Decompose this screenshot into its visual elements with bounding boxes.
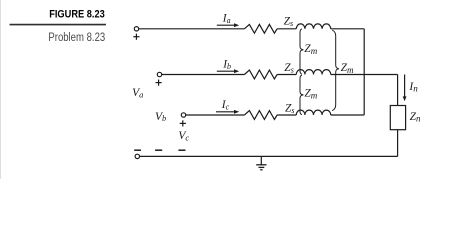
- svg-text:Vc: Vc: [178, 130, 189, 142]
- label Zs phase a: [284, 15, 294, 27]
- impedance Zn box: [390, 106, 405, 130]
- wire neutral branch down: [397, 75, 399, 106]
- ground symbol: [256, 156, 266, 169]
- label Zs phase b: [284, 62, 294, 74]
- current arrow Ic: [216, 110, 239, 114]
- wire phase c right: [331, 114, 365, 116]
- mutual coupling brace Zm (a-c): [332, 30, 339, 110]
- wire phase b mid: [277, 74, 296, 76]
- wire phase a right: [331, 28, 365, 30]
- svg-text:In: In: [408, 81, 418, 94]
- bottom return bus wire: [140, 155, 398, 157]
- resistor Zs phase b: [244, 70, 277, 79]
- inductor Zs phase c: [296, 110, 330, 115]
- svg-text:Zm: Zm: [341, 62, 354, 75]
- svg-text:Zm: Zm: [304, 43, 317, 56]
- wire phase b left: [162, 74, 245, 76]
- label Zn: [410, 111, 421, 123]
- label Zm (a-c): [341, 62, 354, 75]
- neutral bus vertical wire: [363, 29, 365, 115]
- svg-text:Zm: Zm: [304, 88, 317, 101]
- wire phase a left: [139, 28, 245, 30]
- label Vb: [155, 111, 166, 123]
- terminal Vb (phase b source + terminal): [157, 72, 161, 76]
- caption Problem 8.23: [48, 30, 105, 44]
- minus sign Vb: [155, 149, 162, 151]
- minus sign Va: [134, 149, 141, 151]
- wire phase c left: [186, 114, 245, 116]
- svg-text:Zn: Zn: [410, 111, 421, 123]
- current arrow Ia: [217, 23, 239, 27]
- inductor Zs phase b: [296, 70, 330, 75]
- svg-text:FIGURE 8.23: FIGURE 8.23: [49, 9, 105, 21]
- plus sign Vb: [156, 80, 162, 86]
- svg-text:Zs: Zs: [284, 62, 294, 74]
- mutual coupling brace Zm (b-c): [300, 75, 303, 115]
- resistor Zs phase c: [244, 111, 277, 120]
- label Zm (a-b): [304, 43, 317, 56]
- label Ia: [222, 12, 231, 25]
- plus sign Vc: [180, 120, 186, 126]
- terminal Vc (phase c source + terminal): [181, 113, 185, 117]
- wire phase a mid: [277, 28, 296, 30]
- plus sign Va: [133, 34, 139, 40]
- svg-text:Vb: Vb: [155, 111, 166, 123]
- label Ib: [222, 58, 231, 71]
- caption rule: [10, 24, 107, 26]
- current arrow In: [403, 75, 407, 102]
- wire phase c mid: [277, 114, 296, 116]
- terminal Va (phase a source + terminal): [134, 27, 138, 31]
- label Vc: [178, 130, 189, 142]
- label Zm (b-c): [304, 88, 317, 101]
- svg-text:Ib: Ib: [222, 58, 231, 71]
- svg-text:Va: Va: [132, 87, 143, 99]
- svg-text:Problem 8.23: Problem 8.23: [48, 30, 105, 44]
- terminal neutral (bottom left): [135, 154, 139, 158]
- label In: [408, 81, 418, 94]
- page left edge: [0, 0, 2, 179]
- wire below Zn: [397, 130, 399, 157]
- current arrow Ib: [217, 69, 239, 73]
- label Va: [132, 87, 143, 99]
- label Ic: [221, 99, 230, 112]
- label Zs phase c: [285, 103, 295, 115]
- wire phase b right to neutral corner: [331, 74, 398, 76]
- inductor Zs phase a: [296, 24, 330, 29]
- svg-text:Zs: Zs: [285, 103, 295, 115]
- resistor Zs phase a: [244, 24, 277, 33]
- svg-text:Ic: Ic: [221, 99, 230, 112]
- figure caption FIGURE 8.23: [49, 9, 105, 21]
- minus sign Vc: [178, 149, 185, 151]
- svg-text:Zs: Zs: [284, 15, 294, 27]
- mutual coupling brace Zm (a-b): [300, 29, 303, 74]
- svg-text:Ia: Ia: [222, 12, 231, 25]
